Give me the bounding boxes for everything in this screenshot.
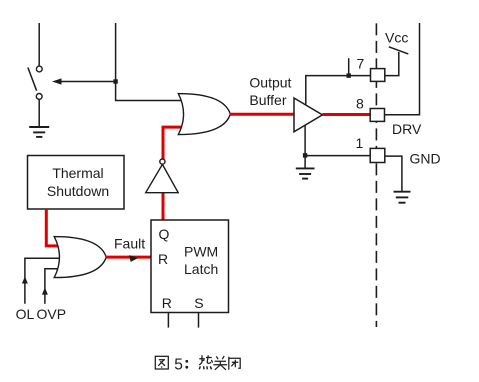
pin 8 [370, 109, 384, 122]
arrowhead on Fault wire [129, 255, 139, 262]
caption: 图 5：热关闭 (drawn glyphs) [155, 356, 168, 369]
wire: latch bottom S stub [198, 313, 200, 328]
wire: OVP input [45, 269, 58, 304]
svg-text:OL: OL [16, 306, 35, 322]
pin 7 lead tick [348, 58, 350, 75]
wire: GND lead [385, 156, 402, 191]
wire: red thermal shutdown to OR2 [46, 209, 62, 246]
glyph 热 [199, 355, 212, 369]
dashed package boundary [375, 23, 377, 327]
wire: main vertical line to OR1 [116, 23, 184, 101]
or-gate U3 [54, 237, 106, 278]
arrowhead OL [22, 277, 28, 284]
PWM latch U5 [151, 220, 229, 313]
op-amp U2 output buffer triangle [294, 98, 322, 132]
Vcc switch blade [389, 47, 409, 54]
wire: latch bottom R stub [167, 313, 169, 328]
wire: OL input [25, 258, 60, 304]
switch S1 upper contact [36, 66, 42, 72]
switch S1 blade [28, 68, 37, 91]
switch S1 lower contact [36, 94, 42, 100]
svg-text:Vcc: Vcc [385, 29, 408, 45]
wire: red Fault wire to latch [106, 256, 152, 259]
ground under switch [29, 127, 49, 137]
glyph 关 [213, 356, 227, 370]
svg-text:Q: Q [159, 226, 170, 242]
wire: Vcc lead [385, 52, 399, 76]
wire: red OR1 output to buffer [230, 113, 295, 116]
wire: red from inverter to OR1 input [163, 127, 183, 159]
svg-text:1: 1 [356, 135, 364, 151]
wire: buffer bottom rail [304, 124, 306, 168]
arrowhead OVP [42, 288, 48, 295]
svg-text:R: R [162, 295, 172, 311]
svg-text:S: S [194, 295, 203, 311]
glyph 图 [155, 356, 168, 369]
wire: DRV rail to top right [385, 23, 420, 115]
svg-text:5: 5 [174, 356, 183, 373]
junction dot [113, 79, 117, 83]
svg-text:8: 8 [356, 95, 364, 111]
svg-text:Output: Output [249, 74, 291, 90]
junction dot on bottom rail [303, 153, 307, 157]
wire: buffer top rail to pin 7 [306, 76, 371, 106]
arrowhead pointing left [52, 78, 62, 84]
svg-text:OVP: OVP [37, 306, 67, 322]
svg-text:Thermal: Thermal [52, 165, 103, 181]
or-gate U1 [178, 94, 230, 135]
junction dot on top rail [347, 73, 351, 77]
svg-text:Latch: Latch [184, 261, 218, 277]
Thermal Shutdown block [28, 156, 125, 210]
svg-text:Buffer: Buffer [249, 92, 286, 108]
svg-text:7: 7 [357, 56, 365, 72]
svg-text:Fault: Fault [114, 236, 145, 252]
inverter bubble [160, 159, 165, 164]
svg-text:PWM: PWM [184, 244, 218, 260]
pin 7 [371, 69, 385, 82]
svg-text:R: R [158, 251, 168, 267]
svg-text:GND: GND [410, 151, 441, 167]
wire: red latch Q to inverter [162, 192, 165, 221]
glyph 闭 [229, 357, 240, 370]
ground under buffer [296, 168, 315, 178]
svg-text:Shutdown: Shutdown [47, 183, 109, 199]
wire: switch top lead [38, 23, 40, 66]
pin 1 [370, 148, 385, 162]
wire: bottom rail to pin 1 [305, 155, 370, 157]
inverter U4 [146, 164, 179, 192]
wire: switch lower lead [38, 99, 40, 127]
glyph ： [185, 360, 188, 369]
ground at GND pin [394, 192, 411, 203]
svg-text:DRV: DRV [392, 121, 422, 137]
wire: red buffer output to pin 8 [322, 113, 370, 116]
wire: arrow branch to switch [60, 81, 116, 83]
